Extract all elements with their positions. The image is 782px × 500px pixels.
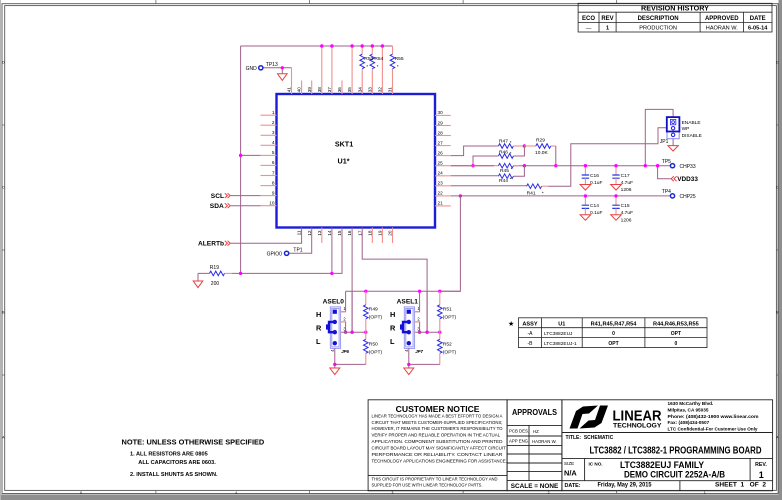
svg-text:ASSY: ASSY (522, 321, 538, 327)
svg-text:1: 1 (272, 110, 275, 115)
wire: SCL to pin 9 (231, 195, 261, 197)
customer notice box (368, 400, 507, 491)
capacitor C14 column (584, 196, 586, 205)
svg-text:ALERTb: ALERTb (198, 241, 224, 248)
ground symbol at C17 (611, 185, 622, 191)
node: VDD33 branch junction (656, 164, 659, 167)
JP7 pin 2 (407, 320, 411, 324)
svg-text:SIZE: SIZE (564, 461, 574, 466)
wire: R19 right lead to bus and pin14 (225, 272, 233, 274)
svg-text:TP4: TP4 (662, 189, 671, 195)
svg-text:DISABLE: DISABLE (682, 133, 702, 139)
jumper JP1 shunt (pins 1-2) (667, 117, 680, 131)
node: pin4 / R52 junction (407, 363, 410, 366)
capacitor C17 column (615, 166, 617, 175)
node: C14 tap (584, 194, 587, 197)
revision history table (578, 3, 772, 32)
svg-text:R47: R47 (499, 138, 508, 144)
svg-text:TECHNOLOGY: TECHNOLOGY (613, 423, 662, 430)
node: bus junction pin 37 (330, 44, 333, 47)
svg-text:(OPT): (OPT) (443, 350, 457, 356)
svg-text:R19: R19 (210, 265, 219, 271)
wire: R51 bottom lead (439, 319, 441, 332)
ground symbol at JP6 (330, 368, 340, 375)
node: pin22 net branch down (459, 194, 462, 197)
svg-text:0: 0 (675, 341, 678, 347)
wire: pin 26 to R47 row (451, 146, 499, 156)
svg-text:(OPT): (OPT) (443, 315, 457, 321)
page edge shading right (779, 0, 782, 500)
svg-text:ASEL0: ASEL0 (323, 298, 345, 305)
svg-text:TP5: TP5 (662, 159, 671, 165)
ground symbol at R19 (193, 281, 203, 288)
svg-text:WP: WP (682, 126, 690, 132)
labels H R L (390, 310, 396, 346)
svg-text:*: * (377, 64, 379, 70)
svg-text:6-05-14: 6-05-14 (748, 25, 768, 31)
svg-text:REVISION HISTORY: REVISION HISTORY (641, 3, 709, 12)
svg-text:★: ★ (508, 320, 514, 328)
node: pin2 jog on pin3 row (418, 331, 421, 334)
wire: ALERTb to pin 11 (231, 228, 302, 244)
wire: pin 22 net to TP4 (451, 195, 671, 197)
wire: VDD33 branch (658, 166, 671, 179)
svg-text:38: 38 (317, 87, 322, 93)
svg-text:1. ALL RESISTORS ARE 0805: 1. ALL RESISTORS ARE 0805 (130, 452, 208, 458)
wire: junction down to R46 right end (513, 146, 524, 156)
node: C16 tap (584, 164, 587, 167)
wire: pin 5 connection from left bus (241, 154, 261, 156)
svg-text:1630 McCarthy Blvd.: 1630 McCarthy Blvd. (668, 401, 714, 406)
resistor R53 (360, 54, 365, 69)
wire: pin 23 to R41 (451, 185, 527, 187)
assembly variant table (519, 318, 708, 348)
wire: R50 bottom to ground row (365, 353, 367, 364)
svg-text:23: 23 (438, 181, 444, 186)
svg-text:-A: -A (528, 331, 534, 337)
wire: ASEL pull-up rail (346, 290, 461, 292)
svg-text:Milpitas, CA 95035: Milpitas, CA 95035 (668, 408, 709, 413)
svg-text:H: H (390, 310, 395, 319)
svg-text:28: 28 (438, 130, 444, 135)
svg-text:25: 25 (438, 161, 444, 166)
resistor R54 (370, 54, 375, 69)
svg-text:4.7uF: 4.7uF (621, 210, 634, 216)
svg-text:DATE:: DATE: (565, 483, 581, 489)
svg-text:SCALE = NONE: SCALE = NONE (511, 483, 559, 490)
address block (668, 401, 759, 431)
svg-text:22: 22 (438, 191, 444, 196)
svg-text:APPROVALS: APPROVALS (512, 408, 558, 417)
svg-text:16: 16 (347, 230, 352, 236)
wire: JP7 pin4 to ground (408, 348, 410, 368)
svg-text:R44,R46,R53,R55: R44,R46,R53,R55 (653, 321, 699, 327)
svg-text:DEMO CIRCUIT 2252A-A/B: DEMO CIRCUIT 2252A-A/B (624, 470, 725, 480)
svg-text:JP1: JP1 (660, 139, 669, 145)
wire: R46 left lead down to pin25 net (473, 156, 498, 166)
svg-text:TECHNOLOGY APPLICATIONS ENGINE: TECHNOLOGY APPLICATIONS ENGINEERING FOR … (372, 458, 507, 463)
resistor R53 column wire (361, 46, 363, 94)
node: R19 net / left bus junction (239, 272, 242, 275)
svg-text:R: R (316, 324, 322, 333)
svg-text:JP6: JP6 (341, 349, 349, 354)
node: bus junction pin 32 (381, 44, 384, 47)
page edge line left (0, 0, 1, 500)
wire: chip drop to pin3 row (351, 291, 353, 332)
wire: pin22 net down to ASEL rail (440, 196, 461, 291)
ground symbol at TP13 (281, 68, 283, 74)
node: rail / R51 (438, 290, 441, 293)
approvals box (507, 400, 562, 491)
ground symbol at JP1 (668, 146, 678, 151)
wire: JP7 pin1 up to rail (415, 291, 420, 311)
resistor R49 (364, 305, 369, 319)
svg-text:CIRCUIT THAT MEETS CUSTOMER-SU: CIRCUIT THAT MEETS CUSTOMER-SUPPLIED SPE… (372, 420, 503, 425)
svg-text:LTC3882EUJ FAMILY: LTC3882EUJ FAMILY (620, 460, 704, 470)
U1 left pin numbers (269, 110, 275, 206)
JP6 pin numbers (330, 306, 347, 352)
node: bus junction pin 38 (320, 44, 323, 47)
wire: TP13 to pin 41 (263, 67, 292, 69)
svg-text:Fax: (408)434-0507: Fax: (408)434-0507 (668, 420, 710, 425)
svg-text:LTC3882EUJ-1: LTC3882EUJ-1 (544, 341, 577, 347)
jumper ASEL0 (JP6) outline (330, 307, 340, 349)
svg-text:TP1: TP1 (293, 248, 302, 254)
svg-text:DESCRIPTION: DESCRIPTION (638, 16, 679, 22)
JP6 pin 1 (square) (333, 310, 337, 314)
svg-text:U1*: U1* (338, 157, 350, 166)
svg-text:20: 20 (388, 230, 393, 236)
svg-text:HZ: HZ (533, 429, 539, 434)
JP7 pin 4 (407, 341, 411, 345)
svg-text:TITLE: SCHEMATIC: TITLE: SCHEMATIC (566, 435, 614, 441)
resistor R54 column wire (371, 46, 373, 94)
test point TP1 (285, 251, 289, 255)
svg-text:DATE: DATE (750, 16, 766, 22)
wire: left bus vertical down to R19 row (240, 46, 242, 273)
svg-text:4: 4 (272, 140, 275, 145)
svg-text:HAORAN W.: HAORAN W. (706, 25, 738, 31)
svg-text:C15: C15 (621, 203, 630, 209)
svg-text:39: 39 (307, 87, 312, 93)
wire: JP6 pin4 to ground (334, 348, 336, 368)
resistor R29 (536, 144, 551, 149)
svg-text:2: 2 (548, 491, 550, 495)
wire: R52 bottom to ground row (439, 353, 441, 364)
wire: top bus horizontal (241, 45, 393, 47)
svg-text:R53: R53 (364, 56, 373, 62)
U1 top pin numbers (287, 87, 393, 93)
wire: pin 17 route to ASEL1 net (362, 228, 427, 333)
svg-text:LTC Confidential-For Customer: LTC Confidential-For Customer Use Only (668, 426, 758, 431)
svg-text:ASEL1: ASEL1 (397, 298, 419, 305)
svg-text:ALL CAPACITORS ARE 0603.: ALL CAPACITORS ARE 0603. (138, 460, 216, 466)
svg-text:2: 2 (272, 120, 275, 125)
ground symbol at JP7 (404, 368, 414, 375)
svg-text:CHP33: CHP33 (680, 164, 696, 170)
svg-text:5: 5 (272, 150, 275, 155)
wire: JP7 pin3 row to resistor column (415, 331, 440, 333)
test point TP13 (259, 66, 263, 70)
svg-text:0.1uF: 0.1uF (590, 180, 603, 186)
svg-text:SHEET 1 OF 2: SHEET 1 OF 2 (715, 483, 767, 489)
svg-text:U1: U1 (558, 321, 565, 327)
svg-text:0: 0 (612, 331, 615, 337)
svg-text:C14: C14 (590, 203, 599, 209)
svg-text:1: 1 (759, 470, 764, 480)
svg-text:(OPT): (OPT) (369, 350, 383, 356)
node: ENABLE tap on pin25 net (644, 164, 647, 167)
wire: pin 14 down to R19 net (331, 228, 333, 274)
svg-text:40: 40 (297, 87, 302, 93)
svg-text:JP7: JP7 (415, 349, 423, 354)
node: R46 tap on pin25 net (471, 164, 474, 167)
svg-text:26: 26 (438, 150, 444, 155)
svg-text:PCB DES.: PCB DES. (509, 429, 529, 434)
JP1 pin 3 (671, 133, 674, 136)
svg-text:R: R (390, 324, 396, 333)
svg-text:11: 11 (297, 230, 302, 235)
svg-text:12: 12 (307, 230, 312, 236)
svg-text:THIS CIRCUIT IS PROPRIETARY TO: THIS CIRCUIT IS PROPRIETARY TO LINEAR TE… (372, 476, 499, 481)
svg-text:R54: R54 (374, 56, 383, 62)
svg-text:1206: 1206 (621, 187, 632, 193)
U1 right pin stubs 30-21 (435, 115, 451, 205)
wire: R29 right end down to pin25 net (551, 145, 556, 147)
wire: top bus to pin 35 (351, 46, 353, 94)
capacitor C16 column (584, 166, 586, 175)
svg-text:VDD33: VDD33 (677, 176, 698, 183)
svg-text:6: 6 (272, 160, 275, 165)
svg-text:GPIO0: GPIO0 (267, 251, 283, 257)
svg-text:5: 5 (80, 491, 82, 495)
wire: junction down to R44 right end (513, 166, 524, 177)
wire: JP1 pin3 to ground (672, 139, 674, 146)
svg-text:18: 18 (367, 230, 372, 236)
svg-text:4: 4 (235, 491, 237, 495)
wire: JP6 pin1 up to rail (341, 291, 346, 311)
node: C17 tap (614, 164, 617, 167)
svg-text:3: 3 (391, 491, 393, 495)
svg-text:36: 36 (337, 87, 342, 93)
resistor R19 (210, 271, 225, 276)
svg-text:SKT1: SKT1 (335, 140, 353, 149)
svg-text:15: 15 (337, 230, 342, 236)
JP7 pin 3 (407, 330, 411, 334)
svg-text:33: 33 (367, 87, 372, 93)
ground symbol at C15 (611, 215, 622, 221)
svg-text:APPROVED: APPROVED (705, 16, 739, 22)
svg-text:14: 14 (327, 230, 332, 236)
svg-text:GND: GND (246, 66, 258, 72)
svg-text:*: * (510, 140, 512, 146)
svg-text:L: L (316, 337, 321, 346)
Linear Technology LT logo (570, 406, 609, 429)
svg-text:R55: R55 (395, 56, 404, 62)
JP1 pin 2 (671, 127, 674, 130)
svg-text:21: 21 (438, 201, 444, 206)
wire: pin 15 down and left to R19 net (332, 228, 342, 274)
resistor R50 (364, 339, 369, 353)
svg-text:CIRCUIT BOARD LAYOUT MAY SIGNI: CIRCUIT BOARD LAYOUT MAY SIGNIFICANTLY A… (372, 446, 507, 451)
wire: R41 right end up to WP segment (542, 185, 549, 187)
svg-text:SUPPLIED FOR USE WITH LINEAR T: SUPPLIED FOR USE WITH LINEAR TECHNOLOGY … (372, 483, 483, 488)
title block frame (562, 400, 773, 491)
svg-text:3: 3 (272, 130, 275, 135)
resistor R47 (498, 144, 513, 149)
test point TP4 (670, 194, 674, 198)
svg-text:30: 30 (438, 110, 444, 115)
JP1 pin 1 square (670, 119, 675, 124)
wire: R49 bottom lead (365, 319, 367, 332)
node: bus junction pin 35 (350, 44, 353, 47)
svg-text:HAORAN W.: HAORAN W. (532, 439, 557, 444)
svg-text:—: — (586, 25, 592, 31)
net flag VDD33 chevrons (671, 176, 677, 181)
svg-text:19: 19 (378, 230, 383, 236)
svg-text:SCL: SCL (211, 193, 224, 200)
U1 bottom pin numbers (297, 230, 393, 236)
salmon stubs on jumper pins (415, 312, 420, 333)
node: resistor column on pin3 row (438, 331, 441, 334)
svg-text:1: 1 (704, 491, 706, 495)
svg-text:N/A: N/A (564, 469, 577, 478)
svg-text:R52: R52 (443, 342, 452, 348)
svg-text:7: 7 (272, 170, 275, 175)
svg-text:PRODUCTION: PRODUCTION (639, 25, 677, 31)
wire: R47 right lead to junction (513, 145, 524, 147)
svg-text:Friday, May 29, 2015: Friday, May 29, 2015 (598, 482, 652, 489)
svg-text:*: * (510, 151, 512, 157)
wire: JP6 pin3 row to resistor column (341, 331, 366, 333)
svg-text:APP ENG.: APP ENG. (509, 439, 529, 444)
svg-text:TP13: TP13 (266, 62, 278, 68)
node: bus junction pin 33 (371, 44, 374, 47)
wire: JP6 pin2 jog down to pin3 row (341, 322, 346, 332)
JP6 pin 3 (333, 330, 337, 334)
wire: resistor column top lead (439, 291, 441, 305)
svg-text:OPT: OPT (608, 341, 618, 347)
U1 bottom pin stubs (unconnected 13,18,19,20) (322, 228, 393, 244)
svg-text:(OPT): (OPT) (369, 315, 383, 321)
jumper JP1 outline (667, 117, 679, 138)
svg-text:OPT: OPT (671, 331, 681, 337)
node: pin14 junction on R19 net (330, 272, 333, 275)
node: TP13 / ground junction (281, 66, 284, 69)
svg-text:31: 31 (388, 87, 393, 93)
wire: pin 24 to R44 (451, 175, 499, 177)
wire: TP1 to pin 12 (289, 228, 312, 254)
wire: top bus to pin 37 (331, 46, 333, 94)
svg-text:C17: C17 (621, 173, 630, 179)
wire: top bus to pin 32 (381, 46, 383, 94)
svg-text:ENABLE: ENABLE (682, 120, 701, 126)
svg-text:R29: R29 (536, 138, 545, 144)
svg-text:17: 17 (357, 230, 362, 236)
node: pin2 jog on pin3 row (344, 331, 347, 334)
svg-text:R44: R44 (499, 178, 508, 184)
svg-text:2. INSTALL SHUNTS AS SHOWN.: 2. INSTALL SHUNTS AS SHOWN. (130, 472, 218, 478)
svg-text:29: 29 (438, 120, 444, 125)
node: pin4 / R50 junction (333, 363, 336, 366)
svg-text:R49: R49 (369, 307, 378, 313)
ground symbol at C14 (580, 215, 591, 221)
svg-text:R41,R45,R47,R54: R41,R45,R47,R54 (591, 321, 638, 327)
wire: R19 left lead and ground drop (198, 273, 210, 281)
wire: R50 top lead (365, 332, 367, 339)
svg-text:NOTE: UNLESS OTHERWISE SPECIFI: NOTE: UNLESS OTHERWISE SPECIFIED (122, 438, 265, 447)
svg-text:LINEAR TECHNOLOGY HAS MADE A B: LINEAR TECHNOLOGY HAS MADE A BEST EFFORT… (372, 413, 503, 418)
svg-text:LTC3882 / LTC3882-1 PROGRAMMIN: LTC3882 / LTC3882-1 PROGRAMMING BOARD (590, 446, 762, 457)
node: resistor column on pin3 row (364, 331, 367, 334)
svg-text:1: 1 (606, 25, 609, 31)
labels ENABLE WP DISABLE (682, 120, 702, 139)
svg-text:*: * (397, 64, 399, 70)
U1 socket SKT1 body (277, 94, 436, 228)
resistor labels R53 R54 R55 (364, 56, 404, 70)
svg-text:200: 200 (211, 281, 220, 287)
svg-text:LTC3882EUJ: LTC3882EUJ (544, 331, 573, 337)
svg-text:*: * (366, 64, 368, 70)
svg-text:32: 32 (378, 87, 383, 93)
svg-text:APPLICATION. COMPONENT SUBSTI: APPLICATION. COMPONENT SUBSTITUTION AND … (372, 439, 503, 444)
jumper ASEL1 (JP7) outline (404, 307, 414, 349)
svg-text:R46: R46 (499, 150, 508, 156)
wire: R29 leads (524, 145, 535, 147)
resistor R51 (438, 305, 443, 319)
resistor R46 (498, 154, 513, 159)
svg-text:CHP25: CHP25 (680, 194, 696, 200)
svg-text:24: 24 (438, 171, 444, 176)
test point TP5 (670, 164, 674, 168)
svg-text:1206: 1206 (621, 217, 632, 223)
U1 left pin stubs 1-10 (261, 115, 277, 206)
U1 top pin stubs (unconnected 40,39,36) (302, 81, 342, 95)
wire: R52 top lead (439, 332, 441, 339)
svg-text:R51: R51 (443, 307, 452, 313)
svg-text:8: 8 (272, 180, 275, 185)
JP6 pin 2 (333, 320, 337, 324)
svg-text:35: 35 (347, 87, 352, 93)
capacitor C15 column (615, 196, 617, 205)
salmon stubs on jumper pins (341, 312, 346, 333)
wire: JP7 pin2 jog down to pin3 row (415, 322, 420, 332)
page edge shading bottom (0, 494, 782, 500)
resistor R45 (498, 163, 513, 168)
svg-text:C16: C16 (590, 173, 599, 179)
JP6 shunt bracket pins 2-3 (329, 322, 335, 332)
svg-text:10.0K: 10.0K (535, 150, 549, 156)
svg-text:REV.: REV. (755, 462, 767, 468)
svg-text:L: L (390, 337, 395, 346)
svg-text:-B: -B (528, 341, 534, 347)
svg-text:R50: R50 (369, 342, 378, 348)
node: R29 tap on pin25 net (554, 164, 557, 167)
node: bus junction pin 34 (361, 44, 364, 47)
svg-text:ECO: ECO (582, 16, 595, 22)
node: R47/R46/R29 junction (523, 144, 526, 147)
node: C15 tap (614, 194, 617, 197)
svg-text:HOWEVER, IT REMAINS THE CUSTOM: HOWEVER, IT REMAINS THE CUSTOMER'S RESPO… (372, 426, 504, 431)
svg-text:41: 41 (287, 87, 292, 93)
svg-text:PERFORMANCE OR RELIABILITY.: PERFORMANCE OR RELIABILITY. CONTACT LINE… (372, 452, 503, 457)
node: rail / ASEL1 pin1 (418, 290, 421, 293)
svg-text:4.7uF: 4.7uF (621, 180, 634, 186)
node: rail / R49 (364, 290, 367, 293)
node: R45/R44 right junction (523, 164, 526, 167)
svg-text:13: 13 (317, 230, 322, 236)
svg-text:0.1uF: 0.1uF (590, 210, 603, 216)
